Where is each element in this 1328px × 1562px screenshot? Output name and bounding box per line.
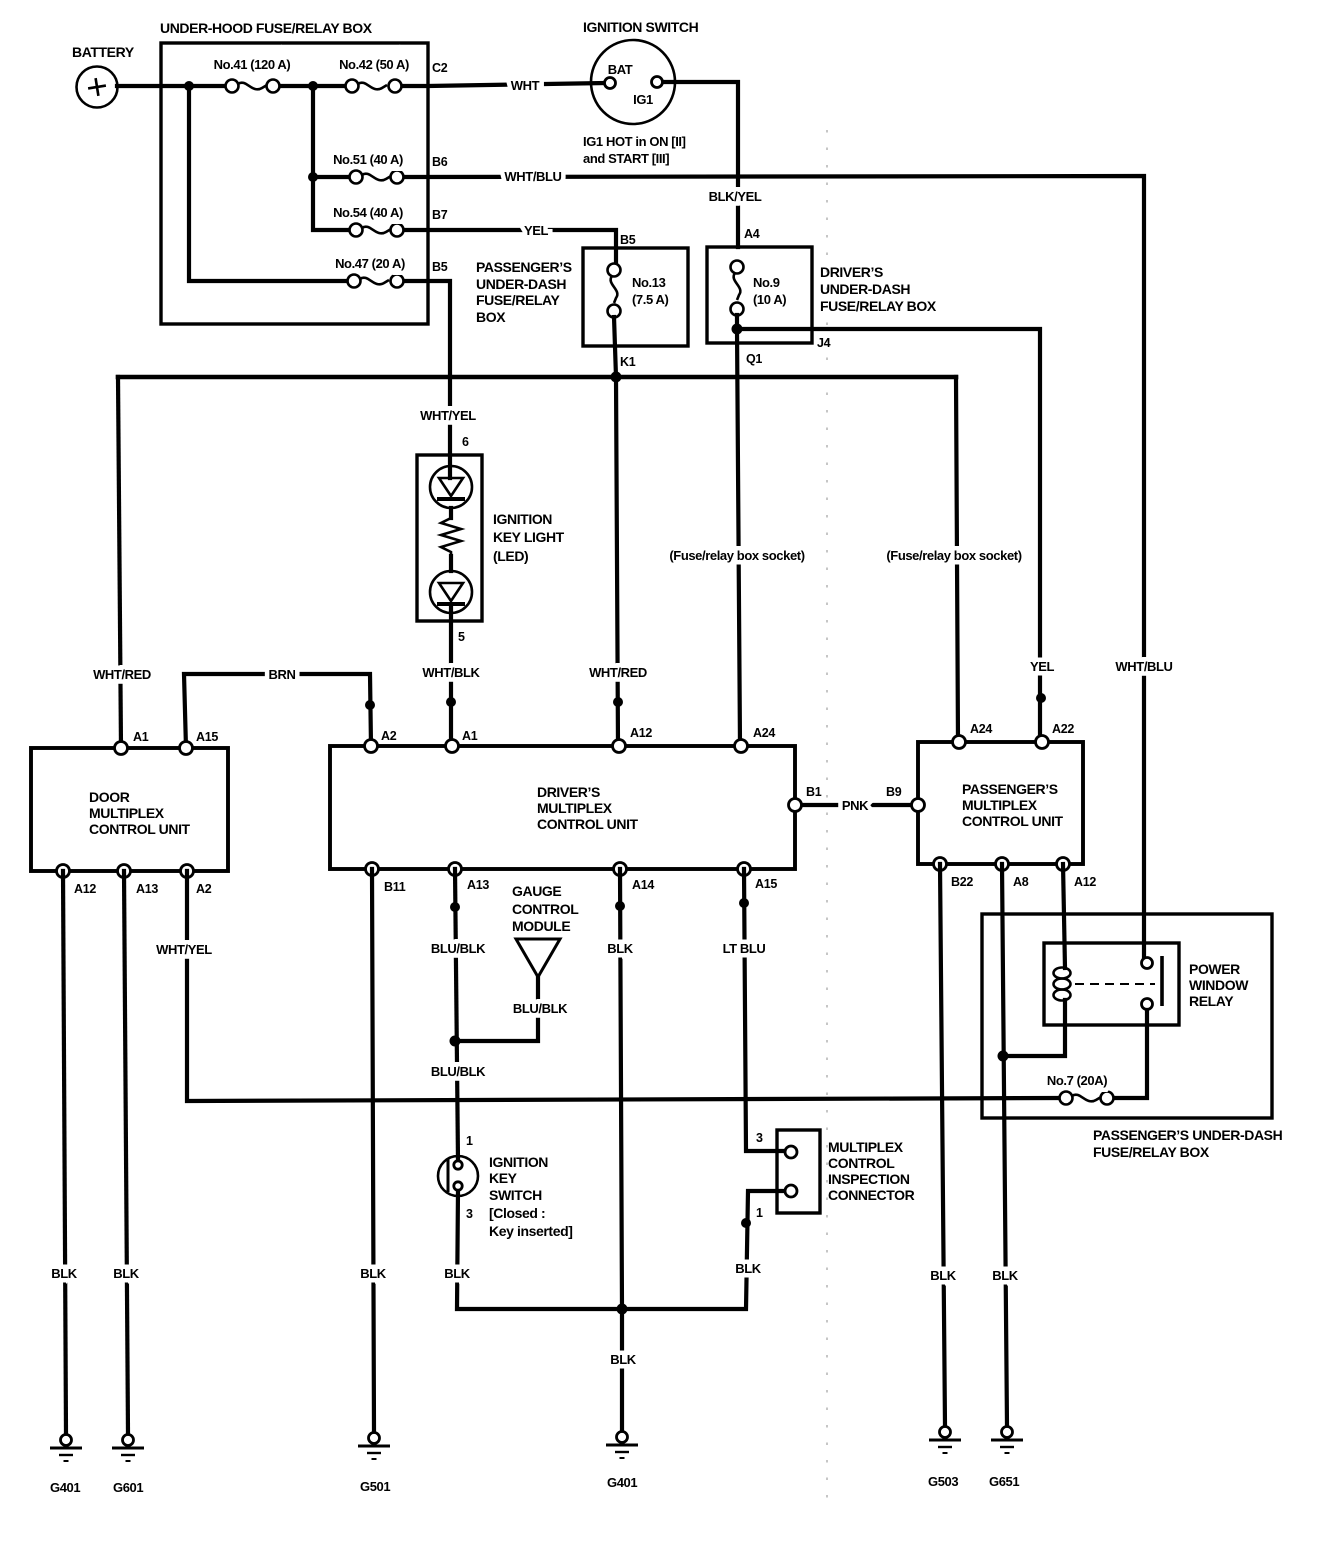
svg-text:GAUGE: GAUGE [512, 883, 561, 899]
svg-text:BLK: BLK [930, 1268, 957, 1283]
svg-text:CONTROL UNIT: CONTROL UNIT [537, 816, 639, 832]
svg-text:BLK: BLK [610, 1352, 637, 1367]
svg-text:MULTIPLEX: MULTIPLEX [962, 797, 1038, 813]
svg-text:(7.5 A): (7.5 A) [632, 292, 669, 307]
svg-text:MULTIPLEX: MULTIPLEX [89, 805, 165, 821]
svg-text:MODULE: MODULE [512, 918, 570, 934]
svg-text:(LED): (LED) [493, 548, 528, 564]
svg-text:CONTROL UNIT: CONTROL UNIT [962, 813, 1064, 829]
svg-text:CONTROL: CONTROL [828, 1155, 895, 1171]
svg-text:A4: A4 [744, 227, 760, 241]
svg-text:BATTERY: BATTERY [72, 44, 135, 60]
svg-text:IG1: IG1 [633, 92, 653, 107]
svg-text:BLU/BLK: BLU/BLK [513, 1001, 568, 1016]
svg-text:WHT/RED: WHT/RED [589, 665, 647, 680]
svg-text:C2: C2 [432, 61, 448, 75]
svg-text:WHT/YEL: WHT/YEL [420, 408, 476, 423]
svg-text:WHT/BLU: WHT/BLU [1115, 659, 1172, 674]
svg-text:A2: A2 [381, 729, 397, 743]
svg-text:No.47 (20 A): No.47 (20 A) [335, 256, 405, 271]
svg-text:POWER: POWER [1189, 961, 1240, 977]
svg-text:(10 A): (10 A) [753, 292, 786, 307]
svg-text:A15: A15 [196, 730, 218, 744]
svg-text:No.41 (120 A): No.41 (120 A) [214, 57, 291, 72]
svg-text:CONTROL: CONTROL [512, 901, 579, 917]
svg-text:CONNECTOR: CONNECTOR [828, 1187, 915, 1203]
svg-text:FUSE/RELAY: FUSE/RELAY [476, 292, 560, 308]
svg-text:A8: A8 [1013, 875, 1029, 889]
svg-text:WHT/BLK: WHT/BLK [422, 665, 480, 680]
svg-text:J4: J4 [817, 336, 831, 350]
svg-text:(Fuse/relay box socket): (Fuse/relay box socket) [886, 548, 1021, 563]
svg-text:PNK: PNK [842, 798, 869, 813]
svg-text:No.54 (40 A): No.54 (40 A) [333, 205, 403, 220]
svg-text:Key inserted]: Key inserted] [489, 1223, 573, 1239]
svg-text:BOX: BOX [476, 309, 506, 325]
svg-text:A13: A13 [136, 882, 158, 896]
svg-text:B6: B6 [432, 155, 448, 169]
svg-text:(Fuse/relay box socket): (Fuse/relay box socket) [669, 548, 804, 563]
svg-text:B5: B5 [432, 260, 448, 274]
svg-text:IG1 HOT in ON [II]: IG1 HOT in ON [II] [583, 134, 686, 149]
svg-text:BLK/YEL: BLK/YEL [709, 189, 762, 204]
svg-text:G601: G601 [113, 1480, 143, 1495]
svg-text:BLK: BLK [992, 1268, 1019, 1283]
svg-text:A12: A12 [74, 882, 96, 896]
svg-text:BLK: BLK [113, 1266, 140, 1281]
svg-text:B7: B7 [432, 208, 448, 222]
svg-text:No.7 (20A): No.7 (20A) [1047, 1073, 1107, 1088]
svg-text:A12: A12 [630, 726, 652, 740]
svg-text:YEL: YEL [1030, 659, 1055, 674]
svg-text:PASSENGER’S: PASSENGER’S [962, 781, 1058, 797]
svg-text:3: 3 [466, 1207, 473, 1221]
svg-text:IGNITION SWITCH: IGNITION SWITCH [583, 19, 699, 35]
svg-text:5: 5 [458, 630, 465, 644]
svg-text:BLK: BLK [360, 1266, 387, 1281]
svg-text:WHT: WHT [511, 78, 540, 93]
svg-text:BLK: BLK [51, 1266, 78, 1281]
svg-text:A2: A2 [196, 882, 212, 896]
svg-text:UNDER-HOOD FUSE/RELAY BOX: UNDER-HOOD FUSE/RELAY BOX [160, 20, 373, 36]
svg-text:FUSE/RELAY BOX: FUSE/RELAY BOX [1093, 1144, 1210, 1160]
svg-text:G503: G503 [928, 1474, 958, 1489]
svg-text:A12: A12 [1074, 875, 1096, 889]
svg-text:DRIVER’S: DRIVER’S [820, 264, 883, 280]
svg-text:and START [III]: and START [III] [583, 151, 669, 166]
svg-text:A22: A22 [1052, 722, 1074, 736]
svg-text:BLK: BLK [735, 1261, 762, 1276]
svg-text:No.42 (50 A): No.42 (50 A) [339, 57, 409, 72]
svg-text:FUSE/RELAY BOX: FUSE/RELAY BOX [820, 298, 937, 314]
svg-text:Q1: Q1 [746, 352, 762, 366]
svg-text:G401: G401 [50, 1480, 80, 1495]
svg-text:MULTIPLEX: MULTIPLEX [537, 800, 613, 816]
svg-text:WINDOW: WINDOW [1189, 977, 1249, 993]
svg-text:INSPECTION: INSPECTION [828, 1171, 910, 1187]
svg-text:SWITCH: SWITCH [489, 1187, 542, 1203]
svg-text:WHT/RED: WHT/RED [93, 667, 151, 682]
svg-text:A13: A13 [467, 878, 489, 892]
svg-text:WHT/YEL: WHT/YEL [156, 942, 212, 957]
svg-text:B9: B9 [886, 785, 902, 799]
svg-text:UNDER-DASH: UNDER-DASH [820, 281, 910, 297]
svg-text:BRN: BRN [269, 667, 296, 682]
svg-text:BLU/BLK: BLU/BLK [431, 1064, 486, 1079]
svg-text:No.51 (40 A): No.51 (40 A) [333, 152, 403, 167]
svg-text:B11: B11 [384, 880, 406, 894]
svg-text:A24: A24 [970, 722, 992, 736]
svg-text:BAT: BAT [608, 62, 633, 77]
svg-text:KEY: KEY [489, 1170, 518, 1186]
svg-text:WHT/BLU: WHT/BLU [504, 169, 561, 184]
svg-text:G651: G651 [989, 1474, 1019, 1489]
svg-text:3: 3 [756, 1131, 763, 1145]
svg-text:1: 1 [756, 1206, 763, 1220]
svg-text:G401: G401 [607, 1475, 637, 1490]
svg-text:CONTROL UNIT: CONTROL UNIT [89, 821, 191, 837]
svg-text:YEL: YEL [524, 223, 549, 238]
svg-text:PASSENGER’S: PASSENGER’S [476, 259, 572, 275]
svg-text:A15: A15 [755, 877, 777, 891]
svg-text:A14: A14 [632, 878, 654, 892]
svg-text:IGNITION: IGNITION [493, 511, 552, 527]
svg-text:RELAY: RELAY [1189, 993, 1234, 1009]
svg-text:DOOR: DOOR [89, 789, 130, 805]
svg-text:DRIVER’S: DRIVER’S [537, 784, 600, 800]
svg-text:UNDER-DASH: UNDER-DASH [476, 276, 566, 292]
svg-text:B1: B1 [806, 785, 822, 799]
svg-text:IGNITION: IGNITION [489, 1154, 548, 1170]
svg-text:6: 6 [462, 435, 469, 449]
svg-text:[Closed :: [Closed : [489, 1205, 545, 1221]
svg-text:No.9: No.9 [753, 275, 780, 290]
svg-text:No.13: No.13 [632, 275, 666, 290]
svg-text:A1: A1 [462, 729, 478, 743]
svg-text:KEY LIGHT: KEY LIGHT [493, 529, 565, 545]
svg-text:B5: B5 [620, 233, 636, 247]
svg-text:1: 1 [466, 1134, 473, 1148]
svg-text:A1: A1 [133, 730, 149, 744]
svg-text:BLK: BLK [444, 1266, 471, 1281]
svg-text:LT BLU: LT BLU [723, 941, 766, 956]
svg-text:BLK: BLK [607, 941, 634, 956]
svg-text:A24: A24 [753, 726, 775, 740]
svg-text:BLU/BLK: BLU/BLK [431, 941, 486, 956]
svg-text:B22: B22 [951, 875, 973, 889]
svg-text:G501: G501 [360, 1479, 390, 1494]
svg-text:MULTIPLEX: MULTIPLEX [828, 1139, 904, 1155]
svg-text:PASSENGER’S UNDER-DASH: PASSENGER’S UNDER-DASH [1093, 1127, 1283, 1143]
svg-text:K1: K1 [620, 355, 636, 369]
